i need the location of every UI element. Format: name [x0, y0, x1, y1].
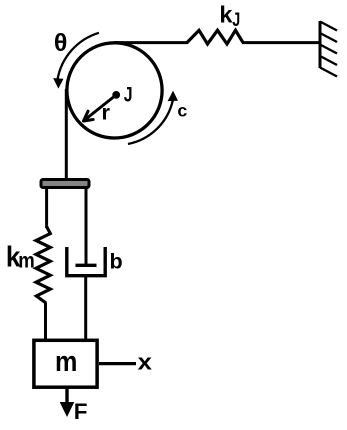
theta arc arrow — [58, 33, 99, 80]
rod damper to mass — [84, 275, 87, 340]
svg-text:b: b — [110, 249, 123, 274]
wire pulley-top to spring kJ — [114, 41, 188, 44]
rope from pulley to bar — [65, 89, 68, 180]
wall hatch 2 — [320, 33, 337, 42]
leg spring km to mass — [44, 303, 47, 341]
spring kJ zigzag — [187, 30, 243, 44]
force F arrowhead — [60, 402, 75, 417]
svg-text:m: m — [18, 248, 35, 272]
spring km zigzag — [36, 227, 50, 304]
mass box m — [34, 340, 97, 387]
damper piston plate — [76, 264, 97, 267]
x line — [99, 362, 136, 365]
wire spring kJ to wall — [242, 41, 320, 44]
c arrowhead — [169, 92, 177, 100]
wall hatch 5 — [320, 68, 337, 77]
svg-text:r: r — [102, 100, 111, 125]
radius arrow r shaft — [84, 95, 116, 121]
svg-text:c: c — [177, 100, 187, 120]
force F arrow shaft — [65, 388, 68, 404]
damper rod from bar — [85, 188, 88, 265]
svg-text:J: J — [232, 10, 240, 31]
gray bar — [41, 180, 89, 188]
pulley hub dot — [112, 91, 120, 99]
svg-text:k: k — [219, 2, 233, 28]
wall hatch 3 — [320, 45, 337, 54]
radius arrow r head — [84, 111, 94, 121]
wall hatch 1 — [320, 22, 337, 31]
svg-text:θ: θ — [54, 29, 68, 57]
wall hatch 4 — [320, 56, 337, 65]
svg-text:F: F — [74, 399, 88, 424]
svg-text:x: x — [138, 350, 153, 375]
svg-text:m: m — [55, 346, 77, 378]
leg bar to spring km — [45, 188, 48, 228]
theta arrowhead — [54, 79, 62, 87]
c arc arrow — [128, 100, 173, 144]
wall vertical line — [319, 21, 322, 68]
svg-text:J: J — [124, 83, 133, 107]
damper cup — [67, 247, 105, 276]
pulley circle J — [67, 43, 162, 138]
